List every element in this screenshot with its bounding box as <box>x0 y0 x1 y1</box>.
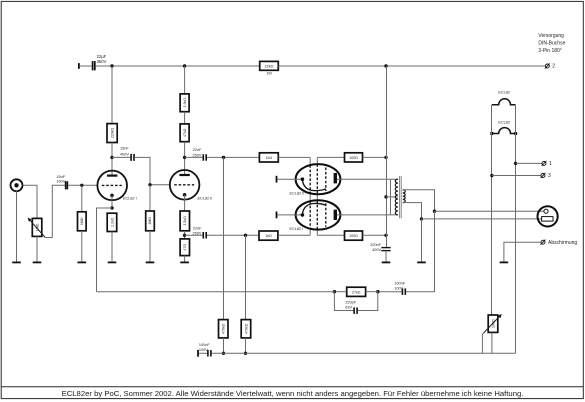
svg-text:47Ω: 47Ω <box>183 244 187 251</box>
node junction primary feed <box>384 195 387 198</box>
node junction grid leak triode I <box>80 184 83 187</box>
resistor 1.9k supply triode II <box>180 94 189 112</box>
wire pot to ground <box>36 236 38 261</box>
ground <box>33 262 42 264</box>
resistor 1k grid stopper pentode II <box>259 153 278 162</box>
triode I grid <box>102 184 122 186</box>
node junction grid leak triode II <box>148 183 151 186</box>
wire feedback to C 100nF <box>406 291 435 293</box>
wire to C 15nF 400V <box>112 156 130 158</box>
wire anode pentode II to transformer <box>337 178 398 180</box>
pin 2 DIN <box>545 63 555 69</box>
wire R 220k to triode I anode <box>111 143 113 175</box>
wire g2 rail to R 100 lower <box>317 234 344 236</box>
trimmer 100R hum balance <box>484 314 502 333</box>
svg-text:1: 1 <box>549 161 552 167</box>
wire C 100nF to R 27k <box>378 291 402 293</box>
svg-text:1W: 1W <box>266 72 272 76</box>
wire trimmer to bottom rail <box>491 332 493 353</box>
node junction heater right <box>514 132 517 135</box>
wire anode link <box>390 179 392 215</box>
wire to R 1M triode II <box>149 185 151 211</box>
resistor 470k lower <box>241 320 251 338</box>
svg-text:Abschirmung: Abschirmung <box>548 240 577 246</box>
wire g2 rail to R 100 upper <box>317 156 344 158</box>
wire secondary top <box>403 190 435 211</box>
svg-text:22nF: 22nF <box>193 148 202 152</box>
wire grid bias divider lower <box>245 235 247 319</box>
wire input sleeve to ground <box>16 191 18 261</box>
ground <box>180 262 189 264</box>
svg-text:1.5kΩ: 1.5kΩ <box>183 216 187 226</box>
heater ECL82 first <box>492 91 516 105</box>
resistor 27k feedback <box>347 287 366 296</box>
svg-text:1kΩ: 1kΩ <box>266 156 273 160</box>
wire bottom rail <box>212 352 516 354</box>
wire feedback to triode I cathode <box>97 291 335 293</box>
wire cathode pentode II <box>277 178 302 180</box>
wire cathode lead <box>111 195 113 208</box>
wire R 100 to screen rail <box>363 156 387 158</box>
resistor 470k upper <box>219 320 229 338</box>
capacitor 100nF 100V feedback <box>394 281 405 295</box>
resistor 1M grid leak triode II <box>146 211 155 231</box>
svg-text:ECL82: ECL82 <box>498 120 510 124</box>
ground <box>417 262 426 264</box>
pin 3 DIN <box>541 173 551 179</box>
wire R 1M to ground <box>81 231 83 262</box>
svg-text:100V: 100V <box>394 286 403 290</box>
svg-text:3: 3 <box>548 173 551 179</box>
wire output hot <box>435 210 544 212</box>
svg-text:2: 2 <box>552 64 555 70</box>
capacitor 22uF 350V <box>93 54 107 71</box>
wire R 100 to screen rail lower <box>363 234 387 236</box>
pin shield DIN <box>541 240 578 246</box>
pentode II g3 <box>325 168 327 192</box>
svg-text:ECL82 II: ECL82 II <box>290 192 305 196</box>
svg-text:220kΩ: 220kΩ <box>110 127 114 138</box>
triode ECL82 II envelope <box>170 170 200 200</box>
ground <box>12 262 21 264</box>
heater ECL82 second <box>492 120 516 133</box>
resistor 47R <box>180 239 189 256</box>
svg-text:220nF: 220nF <box>370 243 381 247</box>
svg-text:250V: 250V <box>193 153 202 157</box>
wire R 47k to triode II anode <box>184 142 186 174</box>
transformer core <box>399 176 401 218</box>
node junction bottom rail right <box>244 352 247 355</box>
wire R 1.9k to R 47k <box>184 112 186 124</box>
svg-text:Versorgung: Versorgung <box>538 33 564 39</box>
svg-text:100Ω: 100Ω <box>349 156 358 160</box>
ground <box>146 262 155 264</box>
svg-text:1.9kΩ: 1.9kΩ <box>183 98 187 108</box>
resistor 100R screen pentode II <box>345 153 363 162</box>
terminal cathode pentode II <box>276 176 278 183</box>
resistor 1k grid stopper pentode I <box>259 231 278 240</box>
triode I cathode <box>110 194 114 198</box>
node junction cathode triode I <box>110 206 113 209</box>
pentode I cathode node <box>301 213 305 217</box>
wire lower grid row <box>207 234 259 236</box>
wire R 1.2k to ground <box>111 232 113 262</box>
pentode I g3 <box>325 203 327 227</box>
wire R 1.5k to R 47 <box>184 231 186 239</box>
node junction RC left <box>333 290 336 293</box>
svg-text:22nF: 22nF <box>193 227 202 231</box>
node junction pin 3 <box>490 174 493 177</box>
wire screen rail B+ <box>386 66 388 247</box>
wire R 27k leads <box>334 291 346 293</box>
svg-text:1kΩ: 1kΩ <box>265 234 272 238</box>
wire R 470k to bottom rail <box>223 338 225 353</box>
wire cathode junction to C 22nF lower <box>185 234 203 236</box>
node junction screen rail upper <box>384 156 387 159</box>
pentode I anode <box>334 210 337 220</box>
pentode ECL82 I envelope <box>296 200 341 229</box>
svg-text:220pF: 220pF <box>345 300 356 304</box>
wire B+ rail to DIN pin 2 <box>278 65 545 67</box>
svg-text:1MΩ: 1MΩ <box>148 217 152 225</box>
wire R 470k lower to bottom rail <box>245 338 247 353</box>
wire g1 rail <box>309 157 311 235</box>
wire upper grid row <box>207 156 260 158</box>
wire grid bias divider upper <box>223 157 225 319</box>
wire input to pot <box>23 185 38 218</box>
resistor 22k 1W <box>260 61 279 75</box>
pentode ECL82 II envelope <box>296 164 341 194</box>
resistor 1.5k cathode triode II <box>180 211 189 231</box>
ground shield <box>500 262 509 264</box>
resistor 1M grid leak triode I <box>78 212 87 231</box>
wire anode pentode I to transformer <box>337 214 398 216</box>
wire to R 1M triode I <box>81 185 83 212</box>
node junction secondary top <box>433 210 436 213</box>
wire g2 rail <box>316 157 318 235</box>
transformer primary winding <box>395 179 398 215</box>
triode II anode <box>179 174 189 176</box>
wire R 47 to ground <box>184 256 186 262</box>
svg-text:DIN-Buchse: DIN-Buchse <box>538 40 565 46</box>
svg-text:ECL82 I: ECL82 I <box>290 227 304 231</box>
node junction secondary bottom <box>420 217 423 220</box>
svg-text:15nF: 15nF <box>120 147 129 151</box>
ground <box>108 262 117 264</box>
wire secondary to ground <box>421 219 423 262</box>
triode II cathode <box>183 193 187 197</box>
resistor 47k anode triode II <box>180 124 189 142</box>
node junction cathode divider <box>183 234 186 237</box>
wire pin 1 <box>516 162 542 164</box>
capacitor 15nF 160V <box>56 175 67 189</box>
triode I anode <box>107 175 117 177</box>
svg-text:22kΩ: 22kΩ <box>265 64 274 68</box>
capacitor 15nF 400V <box>120 147 134 161</box>
node junction RC right <box>376 290 379 293</box>
svg-text:3-Pin 180°: 3-Pin 180° <box>538 48 561 54</box>
wire cathode to R 1.5k <box>184 195 186 211</box>
svg-text:100Ω: 100Ω <box>349 234 358 238</box>
wire secondary bottom <box>403 203 422 219</box>
wire output return <box>422 218 542 220</box>
node junction divider upper <box>222 156 225 159</box>
wire rail to R 220k <box>111 66 113 124</box>
connector input RCA <box>11 179 23 191</box>
wire C 15nF to triode I grid <box>68 184 98 186</box>
svg-text:100nF: 100nF <box>394 281 405 285</box>
node junction triode-I anode chain <box>110 64 113 67</box>
wire cathode pentode I <box>277 214 302 216</box>
svg-text:ECL82 I: ECL82 I <box>123 196 137 200</box>
wire pin 3 <box>492 175 541 177</box>
wire terminal to C 100nF <box>199 352 207 354</box>
svg-text:350V: 350V <box>97 59 107 64</box>
pin 1 DIN <box>542 161 552 167</box>
svg-text:1.2kΩ: 1.2kΩ <box>110 217 114 227</box>
ground <box>382 262 391 264</box>
resistor 220k anode triode I <box>107 124 117 143</box>
node junction heater left <box>490 132 493 135</box>
wire pot wiper to C 15nF 160V <box>45 185 65 237</box>
transformer secondary winding <box>403 190 405 203</box>
wire shield <box>504 242 541 261</box>
wire feedback drop <box>434 211 436 292</box>
node junction coupling to output stage <box>183 156 186 159</box>
potentiometer 1M volume <box>28 218 46 238</box>
wire C 220pF branch <box>334 292 353 311</box>
wire terminal to C1 <box>80 65 92 67</box>
wire B+ rail <box>96 65 260 67</box>
capacitor 22nF 250V lower <box>193 227 207 239</box>
wire primary feed stub <box>386 196 398 198</box>
pentode I cathode-g3 tie <box>302 203 325 214</box>
node junction pin 1 <box>514 162 517 165</box>
svg-text:63V: 63V <box>345 305 352 309</box>
connector speaker jack <box>538 206 558 226</box>
terminal cathode pentode I <box>276 212 278 219</box>
pentode II cathode node <box>301 177 305 181</box>
svg-text:47kΩ: 47kΩ <box>183 128 187 137</box>
svg-text:100V: 100V <box>199 348 208 352</box>
node junction bottom rail left <box>222 352 225 355</box>
svg-text:ECL82: ECL82 <box>498 91 510 95</box>
wire trimmer wiper <box>482 333 483 353</box>
wire C 15nF to triode II grid <box>135 157 170 184</box>
node junction screen rail <box>384 64 387 67</box>
svg-text:470kΩ: 470kΩ <box>244 323 248 334</box>
capacitor 220pF 63V <box>345 300 357 314</box>
svg-text:27kΩ: 27kΩ <box>352 290 361 294</box>
svg-text:160V: 160V <box>56 179 65 183</box>
wire R 1k to g1 rail lower <box>278 234 310 236</box>
resistor 100R screen pentode I <box>345 231 363 240</box>
capacitor 220nF 400V <box>370 243 390 252</box>
svg-text:400V: 400V <box>372 248 381 252</box>
pentode II cathode-g3 tie <box>302 179 325 190</box>
node junction triode-II anode chain <box>183 64 186 67</box>
wire R 1M to ground <box>149 231 151 262</box>
node junction coupling cap branch <box>110 156 113 159</box>
capacitor 22nF 250V upper <box>193 148 207 161</box>
svg-text:ECL82 II: ECL82 II <box>198 196 213 200</box>
capacitor 100nF 100V bias <box>199 343 211 356</box>
terminal bias input <box>197 350 199 357</box>
wire heater rail left <box>491 105 493 315</box>
svg-text:ECL82er by PoC, Sommer 2002. A: ECL82er by PoC, Sommer 2002. Alle Widers… <box>62 389 524 398</box>
wire rail to R 1.9k <box>184 66 186 94</box>
wire anode II to C 22nF upper <box>185 156 203 158</box>
triode II grid <box>174 184 194 186</box>
wire heater rail right <box>515 105 517 354</box>
svg-text:250V: 250V <box>193 232 202 236</box>
node junction screen rail lower <box>384 234 387 237</box>
label Versorgung DIN-Buchse 3-Pin 180 <box>538 33 565 54</box>
svg-text:470kΩ: 470kΩ <box>222 323 226 334</box>
node junction divider lower <box>244 234 247 237</box>
svg-text:1MΩ: 1MΩ <box>80 217 84 225</box>
wire feedback branch <box>97 208 113 292</box>
wire R 1k to g1 rail <box>278 156 310 158</box>
svg-text:400V: 400V <box>120 152 129 156</box>
terminal B+ input <box>78 63 80 69</box>
pentode II anode <box>334 173 337 183</box>
wire C 220nF to ground <box>385 251 387 262</box>
resistor 1.2k cathode triode I <box>107 213 117 231</box>
triode ECL82 I envelope <box>97 171 127 201</box>
ground <box>78 262 87 264</box>
svg-text:100nF: 100nF <box>199 343 210 347</box>
